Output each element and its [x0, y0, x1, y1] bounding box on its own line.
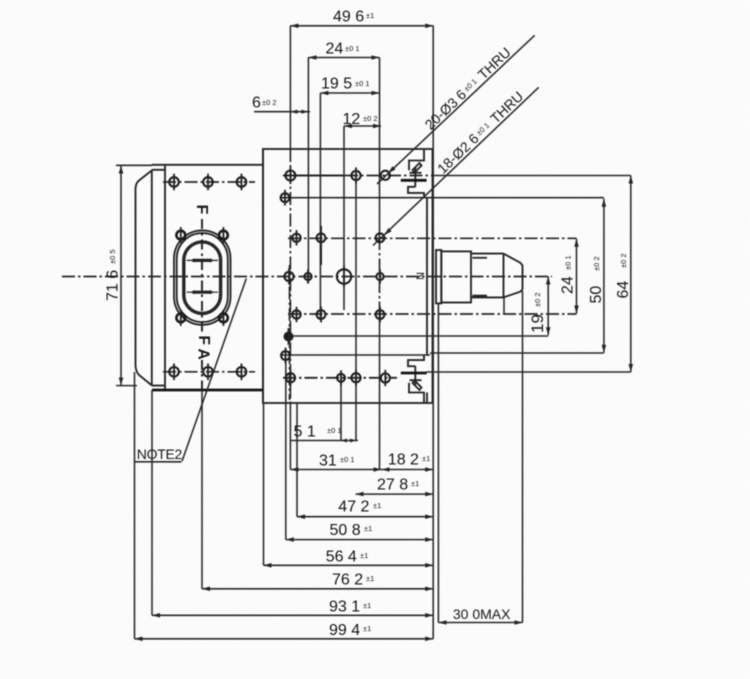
- body outer rectangle: [263, 149, 433, 403]
- flange hole bottom x=208: [203, 367, 213, 377]
- body hole (321,237.8): [317, 233, 326, 242]
- column line x=297 (47.2 ext): [296, 403, 298, 517]
- column line x=308 (24/6 ext): [307, 58, 309, 284]
- flange bottom hole row centerline: [163, 371, 255, 373]
- main horizontal centerline: [62, 276, 552, 278]
- bold segment col 321: [320, 226, 322, 265]
- flange hole top x=241.5: [237, 177, 247, 187]
- dim 49.6: [290, 25, 433, 27]
- body hole (296.5,237.8): [292, 234, 300, 242]
- row B line (to 50 dim top): [280, 197, 604, 199]
- flange vertical centerline: [201, 219, 203, 390]
- row G line: [280, 354, 430, 356]
- filled hole: [284, 332, 294, 342]
- dim 24 right: [576, 239, 578, 314]
- top tab thick bar: [401, 179, 427, 182]
- body hole (296.5,314.5): [292, 310, 300, 318]
- dim 6: [254, 111, 310, 113]
- body hole (290.4,175.5): [285, 171, 295, 181]
- dim 18.2: [382, 469, 434, 471]
- body hole (321,314.5): [317, 310, 326, 319]
- column line x=356: [355, 182, 357, 441]
- column line x=290 (49.6/6 ext + hole centerline + 31 ext): [289, 26, 291, 149]
- waveguide aperture outer obround: [174, 230, 231, 324]
- body hole (290.5,377.8): [286, 373, 295, 382]
- dim 19.5: [320, 92, 379, 94]
- dim 56.4: [264, 564, 434, 566]
- flange hole top x=208: [203, 177, 213, 187]
- column line x=320.4 (19.5 ext): [319, 93, 321, 320]
- antenna main cylinder: [441, 251, 471, 302]
- flange hole bottom x=174: [169, 367, 179, 377]
- aperture corner hole (223.4,235.1): [219, 231, 228, 240]
- body hole (344,276.5): [337, 269, 351, 283]
- ext line x=152 (93.1): [151, 390, 153, 615]
- dim 50: [603, 199, 605, 353]
- body hole (356,175.5): [351, 171, 360, 180]
- body hole (285.5,355.5): [281, 351, 290, 360]
- 50 dim bottom connector: [430, 352, 604, 354]
- ext line x=263.5 (56.4): [263, 403, 265, 565]
- antenna ext line left (30 MAX): [437, 304, 439, 623]
- column line x=289.5 hole centerline: [289, 265, 291, 400]
- dim 12: [344, 125, 381, 127]
- column line x=285.5 (50.8 ext): [285, 360, 287, 540]
- antenna lip: [436, 250, 441, 303]
- body hole (356,377.8): [351, 373, 360, 382]
- column line x=379.5 (24/19.5/12 right ext + 31/18.2): [379, 58, 381, 238]
- cone base ext: [503, 297, 505, 314]
- dim 64: [630, 176, 632, 373]
- dim 99.4: [135, 638, 434, 640]
- antenna ext line tip (30 MAX): [522, 291, 524, 623]
- aperture corner hole (180.8,235.1): [176, 231, 185, 240]
- body hole (380,276.5): [376, 273, 383, 280]
- dim 27.8: [356, 493, 434, 495]
- flange hole top x=174: [169, 177, 179, 187]
- leader 18-d2.6 THRU: [373, 87, 539, 245]
- flange hole bottom x=241.5: [237, 367, 247, 377]
- waveguide aperture outer ring inner line: [177, 233, 228, 322]
- row E centerline (to 24 dim bottom): [288, 313, 577, 315]
- leader 20-d3.6 THRU: [377, 35, 535, 184]
- row C centerline (to 24 dim top): [288, 237, 577, 239]
- dim 19: [547, 277, 549, 336]
- ext line x=202 (76.2 from flange centerline): [201, 390, 203, 589]
- dim 30.0MAX: [438, 622, 522, 624]
- body inner right edge: [426, 198, 428, 356]
- bottom tab thick bar: [401, 372, 427, 375]
- body hole (385.3,175.3): [381, 171, 390, 180]
- column line x=433 (49.6 right ext, right end of bottom dims): [432, 26, 434, 639]
- 64 dim bottom connector: [426, 371, 631, 373]
- dim 24: [308, 57, 379, 59]
- row A centerline (with bold segment): [283, 175, 345, 177]
- waveguide opening ring (thick): [184, 242, 221, 314]
- flange plate: [152, 149, 263, 403]
- row H centerline (bold): [283, 377, 397, 379]
- body hole (308,276.5): [304, 273, 311, 280]
- bottom getter tab: [409, 383, 424, 403]
- ext line x=134.5 (99.4): [134, 372, 136, 639]
- body hole (380,314.5): [376, 310, 385, 319]
- aperture corner hole (223.4,317.9): [219, 314, 228, 323]
- dim 31: [290, 469, 381, 471]
- flange top hole row centerline: [163, 181, 255, 183]
- flange plate bottom edge (thick): [152, 389, 263, 392]
- body hole (380,237.8): [376, 233, 385, 242]
- antenna pin marks: [473, 257, 488, 259]
- aperture bar lower: [187, 291, 219, 293]
- flange mounting strip: [152, 165, 165, 390]
- row F line (to 19 dim bottom): [293, 335, 548, 337]
- antenna cone nose: [504, 254, 523, 298]
- dim 93.1: [152, 614, 433, 616]
- body hole (289,276.5): [284, 272, 293, 281]
- dim 71.6: [120, 166, 122, 386]
- antenna mid section: [471, 254, 504, 298]
- body hole (385.3,378): [381, 373, 390, 382]
- aperture bar upper: [187, 259, 219, 261]
- flange side outline (curved back): [136, 170, 152, 385]
- dim 76.2: [202, 588, 433, 590]
- dim 50.8: [286, 539, 433, 541]
- top getter tab: [409, 150, 424, 170]
- body hole (341,377.8): [337, 374, 345, 382]
- column line x=341 (5.1 ext): [340, 383, 342, 441]
- dim 5.1: [290, 440, 358, 442]
- aperture corner hole (180.8,317.9): [176, 314, 185, 323]
- row A extension to 64 dim: [433, 175, 631, 177]
- column line x=344 (12 ext): [343, 126, 345, 310]
- body hole (285,197.7): [281, 193, 290, 202]
- dim 47.2: [297, 516, 433, 518]
